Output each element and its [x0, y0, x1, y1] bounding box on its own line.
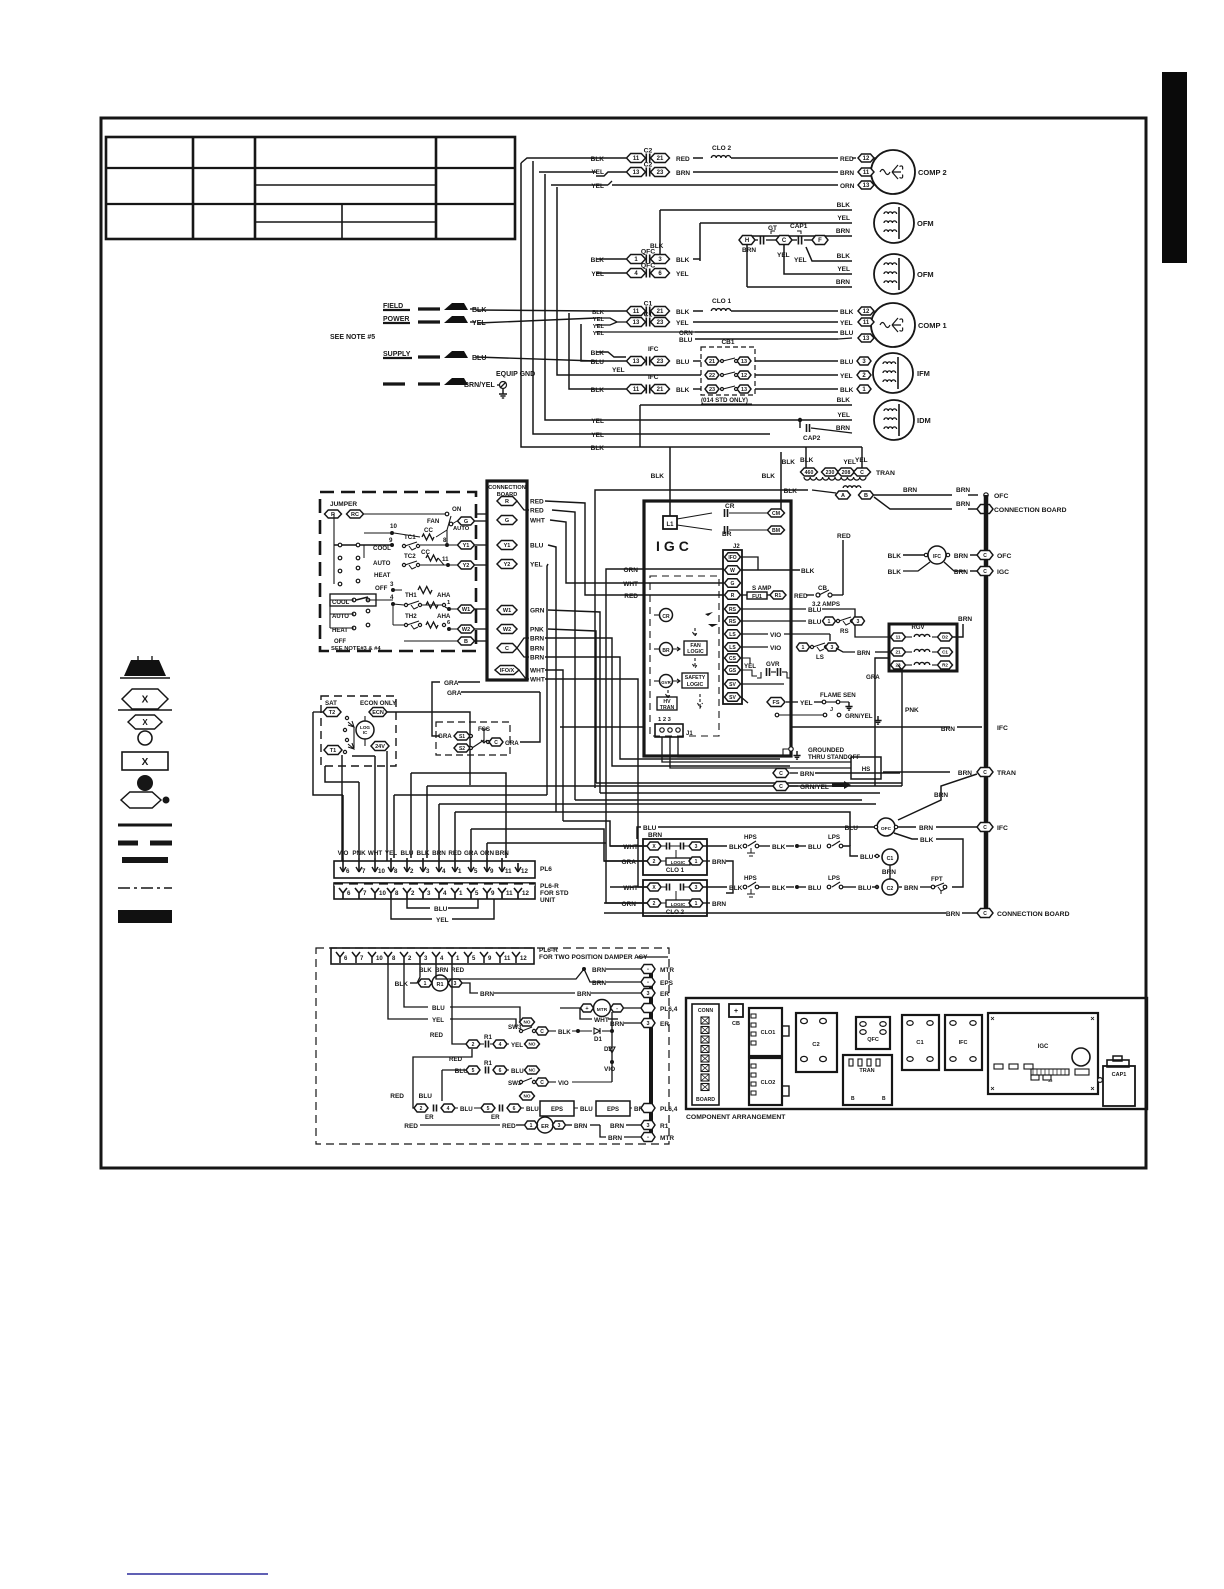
wire from TRAN top horizontal: [595, 490, 808, 788]
wire WHT3 drop to CLO2: [545, 679, 647, 887]
svg-text:J: J: [830, 707, 833, 713]
svg-text:COMP 1: COMP 1: [918, 321, 947, 330]
svg-text:OFC: OFC: [997, 553, 1011, 560]
svg-text:CC: CC: [424, 527, 433, 534]
svg-text:CB1: CB1: [721, 339, 734, 346]
svg-text:YEL: YEL: [511, 1042, 523, 1049]
svg-text:YEL: YEL: [800, 700, 813, 707]
svg-text:PL6-R: PL6-R: [540, 883, 559, 890]
svg-text:6: 6: [347, 890, 351, 897]
svg-text:JUMPER: JUMPER: [330, 501, 357, 508]
damper bus vertical: [649, 966, 653, 1140]
svg-text:10: 10: [390, 523, 397, 530]
svg-text:H: H: [745, 238, 749, 244]
connection board terminal W1: [497, 606, 517, 615]
motor OFM lower: [874, 254, 914, 294]
svg-text:R: R: [731, 593, 735, 599]
mode selector COOL AUTO HEAT OFF: [330, 594, 376, 606]
svg-text:RED: RED: [430, 1032, 444, 1039]
wire YEL row2: [596, 433, 770, 435]
svg-text:TRAN: TRAN: [997, 770, 1016, 777]
svg-text:IDM: IDM: [917, 416, 931, 425]
svg-text:9: 9: [389, 537, 393, 544]
svg-text:PL6-R: PL6-R: [539, 947, 558, 954]
svg-text:SV: SV: [729, 682, 736, 688]
svg-text:HPS: HPS: [744, 834, 757, 841]
wire BLK to C1 cap: [596, 310, 626, 312]
svg-text:W2: W2: [503, 627, 511, 633]
svg-text:RED: RED: [448, 850, 462, 857]
svg-text:BLK: BLK: [762, 473, 776, 480]
svg-text:BLU: BLU: [434, 906, 448, 913]
svg-text:BLK: BLK: [840, 309, 854, 316]
svg-text:X: X: [142, 695, 149, 706]
SAT diodes: [345, 716, 348, 719]
wire RED vertical from CB: [842, 540, 844, 595]
svg-text:RED: RED: [404, 1123, 418, 1130]
svg-text:8: 8: [395, 890, 399, 897]
svg-text:6: 6: [346, 868, 350, 875]
svg-text:C2: C2: [644, 148, 653, 155]
diode D1: [594, 1028, 600, 1034]
svg-text:BLU: BLU: [591, 359, 605, 366]
svg-text:+: +: [585, 1006, 588, 1012]
legend table: [106, 137, 515, 239]
svg-text:R: R: [505, 499, 509, 505]
svg-text:MTR: MTR: [660, 967, 674, 974]
svg-text:CONNECTION: CONNECTION: [488, 485, 526, 491]
svg-text:11: 11: [896, 635, 901, 640]
wires from field power to bundle: [476, 310, 596, 311]
svg-text:5: 5: [487, 1106, 490, 1112]
legend symbol: box X: [122, 752, 168, 770]
svg-text:LPS: LPS: [828, 875, 840, 882]
svg-text:SV: SV: [729, 695, 736, 701]
relay coil CLO 1: [711, 309, 730, 311]
svg-text:S AMP: S AMP: [752, 585, 771, 592]
svg-text:-: -: [647, 980, 649, 986]
svg-text:3: 3: [695, 844, 698, 850]
wire to TRAN verticals: [805, 447, 807, 468]
svg-text:BLK: BLK: [591, 445, 605, 452]
svg-text:10: 10: [378, 868, 385, 875]
wire PNK drop: [548, 629, 596, 783]
IGC pin header: [1031, 1069, 1069, 1075]
svg-text:QFC: QFC: [867, 1037, 879, 1043]
svg-text:NO: NO: [524, 1020, 531, 1025]
svg-text:BRN: BRN: [958, 616, 972, 623]
svg-text:CB: CB: [732, 1021, 740, 1027]
PL6-R damper plug box: [331, 948, 534, 964]
svg-text:TRAN: TRAN: [660, 705, 675, 711]
legend symbol: large hex X: [122, 689, 168, 709]
svg-text:C: C: [983, 825, 987, 831]
svg-text:CLO 2: CLO 2: [712, 145, 732, 152]
svg-text:WHT: WHT: [530, 677, 545, 684]
svg-text:BLK: BLK: [782, 459, 796, 466]
row joins: [533, 161, 538, 166]
svg-text:BRN: BRN: [480, 991, 494, 998]
svg-text:4: 4: [447, 1106, 450, 1112]
equip gnd symbol: [500, 382, 507, 389]
svg-text:IFC: IFC: [933, 554, 941, 560]
svg-text:GRA: GRA: [622, 859, 637, 866]
svg-text:BRN: BRN: [882, 869, 896, 876]
circuit breaker CB1 box: [701, 347, 755, 395]
svg-text:21: 21: [709, 359, 715, 365]
CB breaker small: [729, 1004, 743, 1017]
staircase wire YEL row: [394, 794, 547, 796]
wire BLU top of CLO1: [637, 827, 641, 839]
svg-text:WHT: WHT: [623, 581, 638, 588]
left wire bundle from motors: [521, 163, 596, 447]
svg-text:B: B: [882, 1096, 886, 1102]
svg-text:VIO: VIO: [558, 1080, 569, 1087]
svg-text:J1: J1: [686, 731, 693, 737]
connection board terminal G: [497, 516, 517, 525]
wire OFM2 BLK: [700, 260, 812, 262]
wire YEL to OFM1: [700, 222, 852, 224]
IGC corner screws: [991, 1017, 994, 1020]
svg-text:SEE NOTE#3 & #4: SEE NOTE#3 & #4: [331, 646, 381, 652]
connection board terminal Y2: [497, 560, 517, 569]
svg-text:C: C: [983, 569, 987, 575]
diagram border frame: [101, 118, 1146, 1168]
svg-text:C1: C1: [942, 650, 948, 655]
svg-text:BRN: BRN: [608, 1135, 622, 1142]
svg-text:EPS: EPS: [660, 980, 674, 987]
svg-text:6: 6: [513, 1106, 516, 1112]
wire VIO rows: [741, 633, 768, 635]
svg-text:CONN: CONN: [698, 1008, 714, 1014]
svg-text:ER: ER: [491, 1114, 500, 1121]
svg-text:3: 3: [646, 1123, 649, 1129]
svg-text:BLK: BLK: [837, 202, 851, 209]
pin 11 vertical: [501, 773, 503, 858]
svg-text:CLO 1: CLO 1: [666, 867, 685, 874]
capacitor C1 row1: [627, 307, 646, 316]
svg-text:HPS: HPS: [744, 875, 757, 882]
svg-text:C: C: [779, 771, 783, 777]
svg-text:GVR: GVR: [766, 661, 780, 668]
svg-text:BM: BM: [772, 528, 780, 534]
svg-text:11: 11: [633, 309, 640, 315]
svg-text:LOGIC: LOGIC: [671, 860, 686, 865]
svg-text:-: -: [647, 1135, 649, 1141]
svg-text:3: 3: [454, 981, 457, 987]
staircase wire BRN row: [439, 803, 876, 805]
svg-text:BRN: BRN: [954, 569, 968, 576]
svg-text:21: 21: [657, 387, 664, 393]
svg-text:YEL: YEL: [840, 320, 853, 327]
svg-text:23: 23: [657, 359, 664, 365]
connection board terminal R: [497, 497, 517, 506]
staircase wire RED2 row: [575, 799, 862, 801]
svg-text:3: 3: [426, 868, 430, 875]
svg-text:VIO: VIO: [604, 1066, 615, 1073]
svg-text:BLU: BLU: [808, 844, 822, 851]
svg-text:BLU: BLU: [845, 825, 859, 832]
svg-text:HS: HS: [862, 766, 871, 773]
connection board terminal Y1: [497, 541, 517, 550]
svg-text:2: 2: [411, 890, 415, 897]
svg-text:BRN/YEL: BRN/YEL: [464, 382, 495, 389]
J2 terminal RS: [725, 617, 741, 626]
svg-text:IFC: IFC: [959, 1040, 968, 1046]
svg-text:BRN: BRN: [592, 967, 606, 974]
svg-text:CR: CR: [725, 503, 735, 510]
svg-text:BLK: BLK: [772, 885, 786, 892]
svg-text:GVR: GVR: [661, 680, 671, 685]
logic arrows: [693, 628, 698, 636]
svg-text:RC: RC: [351, 512, 359, 518]
EPS row: [414, 1104, 428, 1112]
staircase wire PNK row: [596, 782, 902, 784]
legend symbol: filled dot: [137, 775, 153, 791]
wire CAP1 H down: [746, 245, 748, 287]
svg-text:C: C: [540, 1029, 544, 1035]
legend symbol: terminal block trapezoid: [124, 660, 166, 676]
svg-text:AUTO: AUTO: [373, 560, 391, 567]
svg-text:7: 7: [362, 868, 366, 875]
svg-text:BLU: BLU: [808, 885, 822, 892]
svg-text:2: 2: [410, 868, 414, 875]
svg-text:11: 11: [863, 170, 870, 176]
svg-text:BLU: BLU: [676, 359, 690, 366]
svg-text:C: C: [494, 740, 498, 746]
staircase wire GRN row: [600, 792, 880, 794]
terminal B: [458, 637, 475, 645]
svg-text:EQUIP GND: EQUIP GND: [496, 371, 535, 378]
svg-text:BLU: BLU: [580, 1106, 593, 1113]
relay C2 circle: [882, 879, 898, 895]
svg-text:BLK: BLK: [558, 1029, 571, 1036]
svg-text:VIO: VIO: [770, 632, 781, 639]
svg-text:ORN: ORN: [679, 330, 693, 337]
svg-text:YEL: YEL: [591, 271, 604, 278]
terminal L1: [663, 516, 677, 529]
svg-text:R1: R1: [660, 1123, 669, 1130]
motor COMP 1: [871, 303, 915, 347]
svg-text:BLK: BLK: [419, 967, 432, 974]
svg-text:12: 12: [741, 373, 747, 379]
svg-text:BRN: BRN: [836, 279, 850, 286]
svg-text:BRN: BRN: [904, 885, 918, 892]
svg-text:FLAME SEN: FLAME SEN: [820, 692, 856, 699]
svg-text:5: 5: [474, 868, 478, 875]
wire YEL drop: [547, 564, 548, 795]
svg-text:R1: R1: [436, 982, 443, 988]
svg-text:10: 10: [379, 890, 386, 897]
svg-text:BLK: BLK: [837, 397, 851, 404]
svg-text:C2: C2: [887, 886, 894, 892]
pin verticals up: [342, 795, 344, 858]
legend symbol: hex with dot: [121, 792, 161, 808]
svg-text:IFM: IFM: [917, 369, 930, 378]
svg-text:BRN: BRN: [919, 825, 933, 832]
wire HS to TRAN bus: [881, 771, 950, 773]
wire BRN drops: [545, 638, 790, 766]
legend line: solid: [118, 824, 172, 827]
svg-text:11: 11: [863, 320, 870, 326]
svg-text:OFM: OFM: [917, 219, 934, 228]
svg-text:BRN: BRN: [836, 228, 850, 235]
svg-text:9: 9: [490, 868, 494, 875]
svg-text:W: W: [730, 568, 735, 574]
svg-text:ON: ON: [452, 506, 462, 513]
wire BLK bottom: [596, 446, 862, 448]
svg-text:COMP 2: COMP 2: [918, 168, 947, 177]
svg-text:C: C: [860, 470, 864, 476]
svg-text:1 2 3: 1 2 3: [658, 717, 672, 723]
svg-text:W2: W2: [462, 627, 470, 633]
svg-text:BLK: BLK: [729, 844, 743, 851]
svg-text:13: 13: [633, 320, 640, 326]
pin4 BRN feed to MTR: [436, 963, 584, 979]
svg-text:BLU: BLU: [460, 1106, 473, 1113]
svg-text:ER: ER: [541, 1124, 549, 1130]
QFC cap row1: [596, 258, 626, 260]
svg-text:CLO1: CLO1: [761, 1030, 776, 1036]
circuit breaker CB 3.2 AMPS: [816, 593, 820, 597]
relay C1 circle: [882, 849, 898, 865]
svg-text:13: 13: [863, 336, 870, 342]
svg-text:HEAT: HEAT: [374, 572, 391, 579]
staircase wire ORN pin row: [487, 842, 606, 844]
svg-text:PL6: PL6: [540, 866, 552, 873]
wire BLK to IDM: [640, 404, 852, 406]
capacitor CAP1 with H C F terminals: [739, 236, 755, 245]
svg-text:VIO: VIO: [338, 850, 349, 857]
svg-text:WHT: WHT: [623, 844, 638, 851]
svg-text:BLK: BLK: [888, 553, 902, 560]
grounded thru standoff: [789, 747, 793, 751]
svg-text:1: 1: [802, 645, 805, 651]
svg-text:C2: C2: [644, 162, 653, 169]
svg-text:3: 3: [427, 890, 431, 897]
svg-text:AHA: AHA: [437, 613, 451, 620]
svg-text:RED: RED: [676, 156, 690, 163]
split wires at R: [517, 501, 529, 510]
svg-text:NO: NO: [529, 1042, 536, 1047]
capacitor C2 row2: [627, 168, 646, 177]
wire BRN MTR bottom: [600, 1125, 606, 1137]
svg-text:BLK: BLK: [395, 981, 409, 988]
svg-text:BLK: BLK: [801, 568, 815, 575]
wire BRN from TRAN to bus OFC: [874, 494, 952, 496]
svg-text:IFC: IFC: [648, 374, 659, 381]
svg-text:B: B: [464, 639, 468, 645]
svg-text:WHT: WHT: [368, 850, 382, 857]
svg-text:C2: C2: [812, 1042, 819, 1048]
J2 terminal IFO: [725, 553, 741, 562]
svg-text:BRN: BRN: [954, 553, 968, 560]
svg-text:IGC: IGC: [1038, 1044, 1049, 1050]
svg-text:C: C: [782, 238, 787, 244]
staircase wire top loop: [411, 773, 506, 858]
relay BR circle: [660, 643, 673, 656]
svg-text:1: 1: [828, 619, 831, 625]
svg-text:CONNECTION BOARD: CONNECTION BOARD: [994, 507, 1067, 514]
economizer logic circle: [356, 721, 374, 739]
svg-text:BLK: BLK: [591, 387, 605, 394]
staircase wire RED pin row: [455, 812, 850, 846]
svg-text:ORN: ORN: [624, 567, 639, 574]
svg-text:13: 13: [633, 170, 640, 176]
svg-text:12: 12: [863, 309, 870, 315]
svg-text:BRN: BRN: [577, 991, 591, 998]
wire PNK vertical: [901, 670, 903, 786]
svg-text:3: 3: [695, 885, 698, 891]
svg-text:BRN: BRN: [712, 859, 726, 866]
svg-text:2: 2: [472, 1042, 475, 1048]
J2 terminal W: [725, 566, 741, 575]
svg-text:CB: CB: [818, 585, 827, 592]
svg-text:BRN: BRN: [800, 771, 814, 778]
svg-text:LPS: LPS: [828, 834, 840, 841]
svg-text:YEL: YEL: [591, 432, 604, 439]
J2 terminal R: [725, 591, 741, 600]
C2 contactor box: [796, 1013, 837, 1072]
wire GRN YEL arrow: [773, 782, 789, 791]
svg-text:R1: R1: [484, 1060, 492, 1067]
svg-text:13: 13: [863, 183, 870, 189]
motor IDM: [874, 400, 914, 440]
svg-text:X: X: [142, 718, 148, 727]
svg-text:LOGIC: LOGIC: [687, 649, 704, 655]
svg-text:LOGIC: LOGIC: [687, 682, 704, 688]
J2 terminal G: [725, 579, 741, 588]
svg-text:LS: LS: [729, 632, 736, 638]
svg-text:TH1: TH1: [405, 592, 417, 599]
svg-text:RED: RED: [502, 1123, 516, 1130]
svg-text:BLK: BLK: [591, 257, 605, 264]
svg-text:YEL: YEL: [840, 373, 853, 380]
svg-text:21: 21: [657, 156, 664, 162]
J2 connector strip: [723, 550, 742, 704]
svg-text:WHT: WHT: [530, 668, 545, 675]
svg-text:GRN/YEL: GRN/YEL: [845, 713, 873, 720]
svg-text:F: F: [818, 238, 822, 244]
svg-text:BRN: BRN: [712, 901, 726, 908]
svg-text:OFM: OFM: [917, 270, 934, 279]
svg-text:1: 1: [530, 1123, 533, 1129]
svg-text:BRN: BRN: [934, 792, 948, 799]
svg-text:1: 1: [459, 890, 463, 897]
wire BLU rows: [741, 608, 806, 610]
wires into PL6: [342, 858, 344, 872]
svg-text:BRN: BRN: [840, 170, 854, 177]
bottom blue rule: [127, 1573, 268, 1575]
svg-text:C: C: [983, 770, 987, 776]
svg-text:FAN: FAN: [427, 518, 440, 525]
svg-text:SAFETY: SAFETY: [685, 675, 706, 681]
svg-text:EPS: EPS: [607, 1107, 619, 1113]
svg-text:D2: D2: [942, 635, 948, 640]
HV TRAN box: [657, 697, 677, 710]
wire YEL long IFM: [596, 374, 701, 376]
conn board strip: [692, 1004, 719, 1105]
svg-text:IFO/X: IFO/X: [500, 668, 515, 674]
svg-text:GRA: GRA: [866, 674, 880, 681]
thermostat dashed box: [320, 492, 476, 651]
wire BRN out CLO1: [703, 860, 710, 862]
svg-text:BLU: BLU: [679, 337, 693, 344]
svg-text:11: 11: [442, 556, 449, 563]
svg-text:BLK: BLK: [676, 257, 690, 264]
OFC relay circle: [877, 818, 895, 836]
svg-text:13: 13: [741, 359, 747, 365]
